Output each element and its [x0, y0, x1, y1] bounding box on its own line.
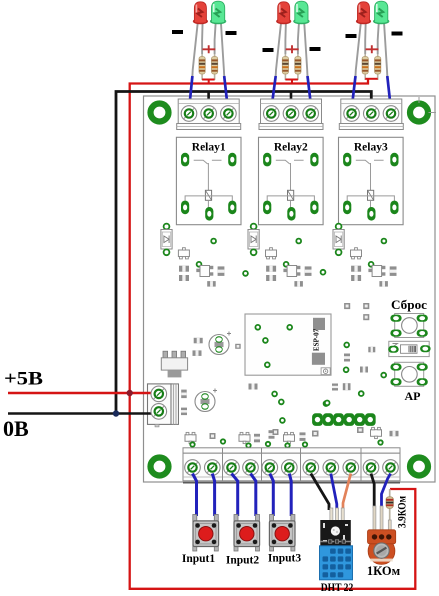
wire: green LED2 anode leg — [298, 22, 299, 54]
diode VD2 footprint — [248, 224, 259, 256]
smd parts near regulator — [181, 338, 241, 415]
svg-text:Input2: Input2 — [226, 555, 259, 567]
via — [197, 262, 202, 267]
wire: green LED3 cathode leg to terminal — [384, 22, 387, 76]
relay RL2 footprint — [259, 137, 324, 224]
minus mark right of LED group 1 — [226, 31, 237, 35]
relay3 output screw terminal block — [339, 99, 403, 130]
resistor R3b 470 Ohm — [375, 54, 381, 80]
relay3 coil — [368, 190, 374, 200]
minus mark right of LED group 2 — [310, 47, 321, 51]
screw terminal T1.2 — [201, 106, 217, 122]
push button SB3 (Input3) — [269, 515, 295, 552]
smd parts right of ESP — [324, 303, 387, 406]
svg-text:Relay3: Relay3 — [354, 142, 388, 154]
svg-text:Сброс: Сброс — [391, 298, 427, 312]
smd resistor — [294, 281, 303, 287]
smd resistors cluster 1 — [179, 266, 189, 281]
diode VD1 footprint — [161, 224, 172, 256]
wire: potentiometer wiper (blue) — [382, 474, 391, 509]
screw terminal T2.1 — [264, 106, 280, 122]
svg-text:3.9КОм: 3.9КОм — [397, 496, 409, 528]
relay2 coil — [288, 190, 294, 200]
relay2 bottom trace — [267, 196, 314, 209]
relay2 contact symbol — [276, 160, 304, 190]
transistor VT2a footprint — [266, 248, 277, 259]
input screw terminal B3 — [224, 460, 240, 476]
screw terminal T1.3 — [221, 106, 237, 122]
svg-text:Relay1: Relay1 — [192, 142, 226, 154]
ESP shield pads — [312, 318, 325, 365]
ESP vias — [255, 325, 292, 367]
input screw terminal B9 — [343, 460, 359, 476]
mounting hole H1 — [151, 104, 169, 122]
red LED D1R — [193, 2, 207, 24]
electrolytic capacitor C1 footprint — [209, 332, 231, 355]
wire: green LED2 cathode leg to terminal — [304, 22, 307, 76]
resistor R1b 470 Ohm — [212, 54, 218, 80]
bottom smd component row — [185, 427, 399, 448]
screw terminal T1.1 — [181, 106, 197, 122]
relay3 contact symbol — [356, 160, 384, 190]
potentiometer RP1 1kOhm — [368, 506, 396, 564]
slide switch footprint — [388, 341, 430, 356]
ESP-07 wifi module — [245, 314, 331, 375]
transistor VT1b footprint — [196, 266, 213, 277]
wire: potentiometer pin1 (black) — [371, 474, 374, 509]
vias above header — [279, 400, 330, 406]
junction: black vertical with 0V feed — [113, 410, 119, 416]
wire: +5V red feed — [8, 392, 156, 394]
black bus stub to relay2 common terminal — [290, 92, 293, 111]
black bus stub to relay1 common terminal — [207, 92, 210, 111]
red wire joining resistors of group 3 — [365, 78, 378, 80]
wire: DHT22 GND (black) — [311, 474, 329, 511]
input screw terminal B1 — [185, 460, 201, 476]
transistor VT3a footprint — [351, 248, 362, 259]
smd capacitor — [218, 266, 225, 276]
screw terminal T3.1 — [344, 106, 360, 122]
screw terminal T3.3 — [383, 106, 399, 122]
push button SB2 (Input2) — [234, 515, 260, 552]
smd resistors cluster 2 — [266, 266, 276, 281]
wire: Input3 terminal A — [270, 474, 274, 517]
stray vias — [243, 270, 325, 276]
input screw terminal B10 — [363, 460, 379, 476]
relay3 bottom trace — [347, 196, 394, 209]
plus mark of LED group 2 — [286, 45, 299, 53]
green LED D2G — [294, 1, 310, 24]
relay RL1 footprint — [176, 137, 241, 224]
svg-text:AP: AP — [405, 389, 421, 403]
ESP corner marker — [321, 368, 330, 375]
wire: Input2 terminal A — [232, 474, 238, 517]
svg-text:Input1: Input1 — [182, 553, 215, 565]
svg-text:ESP-07: ESP-07 — [313, 328, 321, 351]
screw terminal T2.3 — [303, 106, 319, 122]
red wire joining resistors of group 2 — [285, 80, 298, 84]
relay1 pads — [181, 153, 236, 221]
svg-text:Relay2: Relay2 — [274, 142, 308, 154]
hole H2 tick marks — [419, 97, 436, 113]
input screw terminal B8 — [323, 460, 339, 476]
resistor R4 3.9kOhm — [386, 489, 393, 531]
input screw terminal B2 — [205, 460, 221, 476]
voltage regulator U2 (TO-220) — [161, 351, 187, 377]
wire: DHT22 VCC (orange) — [343, 474, 351, 511]
push button SB1 (Input1) — [193, 515, 219, 552]
wire: Input2 terminal B — [251, 474, 256, 517]
green LED D3G — [373, 1, 389, 24]
black 0V top bus wire — [116, 92, 371, 414]
minus mark right of LED group 3 — [392, 32, 403, 36]
wire: green LED1 anode leg — [215, 22, 216, 54]
input screw terminal B7 — [303, 460, 319, 476]
X1 screw 1 — [151, 386, 167, 402]
transistor VT1a footprint — [178, 248, 189, 259]
resistor R3a 470 Ohm — [362, 54, 368, 80]
svg-text:+5B: +5B — [4, 369, 43, 390]
screw terminal T2.2 — [283, 106, 299, 122]
via — [284, 262, 289, 267]
smd near cap2 — [249, 384, 258, 390]
smd resistor — [379, 281, 388, 287]
plus mark of LED group 3 — [366, 45, 379, 53]
relay2 output screw terminal block — [259, 99, 323, 130]
via — [369, 262, 374, 267]
minus mark left of LED group 1 — [172, 30, 183, 34]
wire: green LED3 anode leg — [378, 22, 379, 54]
diode VD3 footprint — [333, 224, 344, 256]
relay1 bottom trace — [185, 196, 232, 209]
relay RL3 footprint — [339, 137, 404, 224]
wire: Input3 terminal B — [289, 474, 291, 517]
mounting hole H3 — [151, 458, 169, 476]
smd resistors cluster 3 — [351, 266, 361, 281]
X1 screw 2 — [151, 404, 167, 420]
wire: 0V black feed — [8, 412, 156, 415]
wire: red LED1 anode leg — [201, 22, 204, 54]
minus mark left of LED group 2 — [263, 48, 274, 52]
electrolytic capacitor C2 footprint — [195, 389, 217, 412]
button SB1 reset footprint — [390, 314, 427, 338]
svg-text:1КОм: 1КОм — [367, 564, 401, 578]
plus mark of LED group 1 — [202, 45, 215, 53]
wire: red LED1 cathode leg to terminal — [192, 22, 197, 76]
wire: DHT22 data (blue) — [331, 474, 337, 511]
green LED D1G — [210, 1, 226, 24]
relay1 coil — [205, 190, 211, 200]
wire: red LED2 cathode leg to terminal — [276, 22, 281, 76]
vias below ESP — [272, 392, 285, 423]
PCB board outline — [144, 96, 436, 482]
resistor R2b 470 Ohm — [295, 54, 301, 80]
svg-text:DHT 22: DHT 22 — [321, 582, 354, 594]
transistor VT2b footprint — [283, 266, 300, 277]
resistor R2a 470 Ohm — [282, 54, 288, 80]
DHT22 sensor module — [320, 508, 353, 580]
wire: red LED2 anode leg — [284, 22, 287, 54]
red LED D3R — [356, 2, 370, 24]
screw terminal T3.2 — [364, 106, 380, 122]
smd resistor — [207, 281, 216, 287]
DHT22 grid — [323, 549, 351, 578]
input screw terminal B4 — [243, 460, 259, 476]
relay2 pads — [263, 153, 318, 221]
junction: red vertical with +5V feed — [127, 390, 133, 396]
via row between relays — [211, 239, 386, 244]
programming header pads — [312, 413, 376, 426]
+5V input screw terminal block X1 — [148, 384, 179, 427]
wire: Input1 terminal B — [212, 474, 214, 517]
relay3 pads — [343, 153, 398, 221]
input screw terminal B5 — [262, 460, 278, 476]
wire: red LED3 anode leg — [364, 22, 367, 54]
mounting hole H4 — [410, 458, 428, 476]
svg-text:0B: 0B — [3, 416, 29, 441]
input screw terminal strip — [183, 448, 400, 481]
wire: red LED3 cathode leg to terminal — [356, 22, 361, 76]
wire: green LED1 cathode leg to terminal — [221, 22, 224, 76]
svg-text:Input3: Input3 — [268, 553, 301, 565]
input screw terminal B6 — [282, 460, 298, 476]
resistor R1a 470 Ohm — [199, 54, 205, 80]
red LED D2R — [277, 2, 291, 24]
smd capacitor — [390, 266, 397, 276]
transistor VT3b footprint — [368, 266, 385, 277]
wire: Input1 terminal A — [193, 474, 197, 517]
relay1 contact symbol — [194, 160, 222, 190]
button SB2 AP footprint — [390, 362, 427, 386]
mounting hole H2 — [410, 104, 428, 122]
smd capacitor — [305, 266, 312, 276]
red +5V bus wire loop — [130, 79, 416, 589]
minus mark left of LED group 3 — [346, 34, 357, 38]
red wire joining resistors of group 1 — [202, 80, 215, 84]
relay1 output screw terminal block — [177, 99, 241, 130]
board edge under strip — [183, 482, 400, 484]
input screw terminal B11 — [383, 460, 399, 476]
